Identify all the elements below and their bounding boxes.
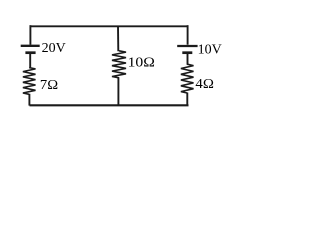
svg-text:4Ω: 4Ω <box>195 77 214 92</box>
svg-text:10V: 10V <box>198 42 222 57</box>
svg-text:20V: 20V <box>42 41 66 56</box>
svg-text:10Ω: 10Ω <box>128 56 155 71</box>
svg-text:7Ω: 7Ω <box>40 78 58 93</box>
